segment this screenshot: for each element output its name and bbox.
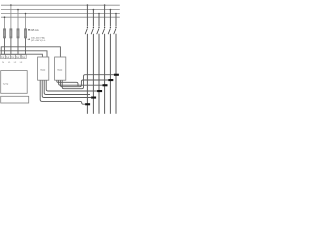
junction dot phase V1 tap (87, 4, 89, 6)
CT bar E (91, 97, 96, 99)
svg-text:7272: 7272 (3, 83, 9, 86)
wire TCO U1 pin a to CT bar F (40, 80, 85, 104)
phase vertical V3 upper (98, 14, 100, 27)
wire fuse F4 to terminal (25, 38, 27, 55)
wire TCO U1 pin b to CT bar E (42, 80, 91, 97)
junction dot phase V3 tap (98, 13, 100, 15)
phase vertical V6 lower (115, 34, 117, 114)
terminal block 7.3 (1, 55, 6, 59)
phase vertical V5 upper (109, 10, 111, 27)
isolator switch Q1 (85, 27, 88, 34)
wire TCO U2 pin c to CT bar B (60, 80, 108, 87)
phase vertical V4 lower (104, 34, 106, 114)
junction dot phase V6 tap (115, 13, 117, 15)
TCO box U1 (38, 57, 49, 80)
junction dot phase V2 tap (93, 9, 95, 11)
isolator switch Q3 (97, 27, 100, 34)
annotation voltage range (28, 37, 47, 43)
terminal block 7.8 (21, 55, 26, 59)
wire drop to fuse F2 (10, 5, 12, 29)
svg-text:TCO: TCO (40, 69, 45, 72)
fuse F2 (10, 29, 12, 38)
terminal block 7.5 (11, 55, 16, 59)
CT bar A (114, 74, 119, 76)
junction dot phase V4 tap (104, 4, 106, 6)
svg-text:315 mA: 315 mA (30, 29, 39, 32)
wire TCO U2 pin b to CT bar C (59, 80, 103, 85)
junction dot fuse F3 tap (17, 9, 19, 11)
junction dot fuse F2 tap (10, 4, 12, 6)
fuse F4 (24, 29, 26, 38)
wire bus N (1, 16, 120, 18)
phase vertical V2 upper (92, 10, 94, 27)
phase vertical V2 lower (92, 34, 94, 114)
junction dot phase V5 tap (110, 9, 112, 11)
fuse F3 (17, 29, 19, 38)
lower terminal box (1, 96, 29, 103)
annotation 315 mA (28, 29, 39, 32)
junction dot fuse F4 tap (25, 13, 27, 15)
isolator switch Q6 (114, 27, 117, 34)
isolator switch Q2 (91, 27, 94, 34)
CT bar B (108, 79, 113, 81)
wire voltage tap N to TCO U2 (1, 47, 60, 57)
isolator switch Q5 (108, 27, 111, 34)
wire TCO U1 pin d to CT bar D (46, 80, 97, 91)
fuse F1 (3, 29, 5, 38)
terminal block 7.6 (16, 55, 21, 59)
wire drop to fuse F4 (25, 14, 27, 30)
phase vertical V1 lower (86, 34, 88, 114)
wire bus L3 (1, 13, 120, 15)
device box U3 (1, 71, 28, 94)
wire drop to fuse F1 (4, 17, 6, 29)
wire drop to fuse F3 (17, 10, 19, 29)
wire TCO U2 pin d to CT bar A (62, 75, 114, 89)
CT bar F (85, 103, 90, 105)
wire TCO U2 pin a spare (57, 80, 78, 86)
wire fuse F3 to terminal (17, 38, 19, 55)
phase vertical V3 lower (98, 34, 100, 114)
wire bus L1 (1, 4, 120, 6)
junction dot fuse F1 tap (4, 16, 6, 18)
wire voltage tap to TCO U1 left pin (0, 54, 42, 57)
svg-text:(57–410 V) L-L: (57–410 V) L-L (31, 40, 46, 42)
wire bus L2 (1, 9, 120, 11)
phase vertical V1 upper (86, 5, 88, 27)
TCO box U2 (55, 57, 66, 80)
phase vertical V4 upper (104, 5, 106, 27)
wire fuse F1 to terminal (4, 38, 6, 55)
svg-text:TCO: TCO (57, 69, 62, 72)
wire TCO U1 pin c spare (44, 80, 90, 94)
wire voltage tap to TCO U1 right pin (0, 51, 47, 57)
wire fuse F2 to terminal (10, 38, 12, 55)
CT bar D (97, 90, 102, 92)
isolator switch Q4 (102, 27, 105, 34)
phase vertical V6 upper (115, 14, 117, 27)
terminal block 7.4 (6, 55, 11, 59)
CT bar C (103, 84, 108, 86)
phase vertical V5 lower (109, 34, 111, 114)
